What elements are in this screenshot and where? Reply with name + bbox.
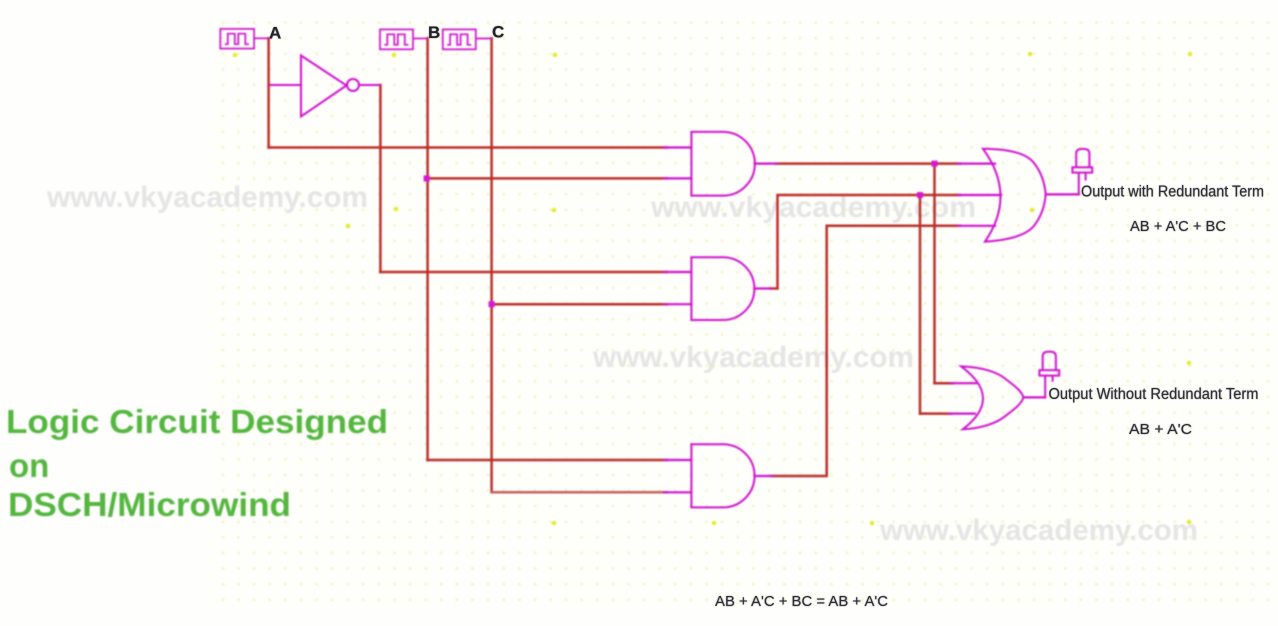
wire AND1 output to OR1 input 1: [776, 162, 960, 165]
pin OR1 in2: [958, 194, 1001, 196]
OR gate 2 (2-input): [961, 366, 1023, 429]
bright grid dots: [233, 52, 1193, 526]
wire A vertical drop: [267, 38, 270, 147]
svg-text:B: B: [428, 23, 440, 42]
clock source C: [443, 29, 492, 49]
wire AND3 output riser to OR1 input 3: [772, 226, 960, 476]
pin AND1 out: [755, 163, 777, 165]
AND gate 2 (A'C): [691, 257, 754, 320]
wire AB branch to OR2 input 1: [935, 382, 954, 385]
pin OR2 in2: [949, 413, 975, 415]
pin OR1 in3: [958, 225, 995, 227]
svg-text:AB + A'C + BC: AB + A'C + BC: [1130, 219, 1226, 235]
wire A' (inverter out) vertical: [379, 85, 382, 272]
pin AND3 in2: [664, 491, 691, 493]
AND gate 1 (AB): [691, 132, 754, 196]
svg-text:AB + A'C + BC = AB + A'C: AB + A'C + BC = AB + A'C: [715, 594, 888, 610]
wire AB branch vertical: [933, 164, 936, 384]
pin AND2 in1: [664, 271, 691, 273]
wire B to AND1 input 2: [428, 177, 667, 180]
wire C vertical drop: [490, 38, 493, 492]
junction node B-AND1: [424, 175, 430, 181]
pin AND3 out: [755, 475, 773, 477]
pin AND1 in1: [664, 146, 691, 148]
pin AND1 in2: [664, 177, 691, 179]
junction node C-AND2: [489, 301, 495, 307]
wire A to AND1 input 1: [269, 146, 667, 149]
LED D2: [1039, 352, 1059, 398]
LED D1: [1072, 149, 1092, 194]
pin AND3 in1: [664, 459, 691, 461]
inverter U1: [269, 56, 381, 117]
wire C to AND3 input 2: [492, 491, 667, 494]
pin OR1 in1: [958, 163, 995, 165]
wire B to AND3 input 1: [428, 459, 667, 462]
AND gate 3 (BC): [691, 444, 754, 507]
svg-text:Output with Redundant Term: Output with Redundant Term: [1081, 183, 1264, 200]
wire A'C branch to OR2 input 2: [920, 412, 951, 415]
pin OR2 out: [1023, 396, 1045, 398]
wire A' to AND2 input 1: [380, 271, 667, 274]
OR gate 1 (3-input): [983, 149, 1046, 242]
pin OR1 out: [1046, 193, 1079, 195]
clock source B: [380, 29, 428, 49]
clock source A: [220, 29, 268, 49]
svg-text:A: A: [269, 24, 281, 43]
wire C to AND2 input 2: [492, 303, 667, 306]
svg-text:C: C: [492, 23, 504, 42]
junction node AB: [932, 161, 938, 167]
pin OR2 in1: [951, 382, 976, 384]
svg-text:Output Without Redundant Term: Output Without Redundant Term: [1049, 386, 1259, 403]
wire AND2 output riser: [770, 195, 960, 289]
junction node A'C: [917, 192, 923, 198]
svg-text:AB + A'C: AB + A'C: [1129, 422, 1192, 438]
pin AND2 in2: [664, 303, 691, 305]
wire A'C branch vertical: [919, 195, 922, 414]
wire B vertical drop: [426, 38, 429, 460]
pin AND2 out: [754, 287, 770, 289]
